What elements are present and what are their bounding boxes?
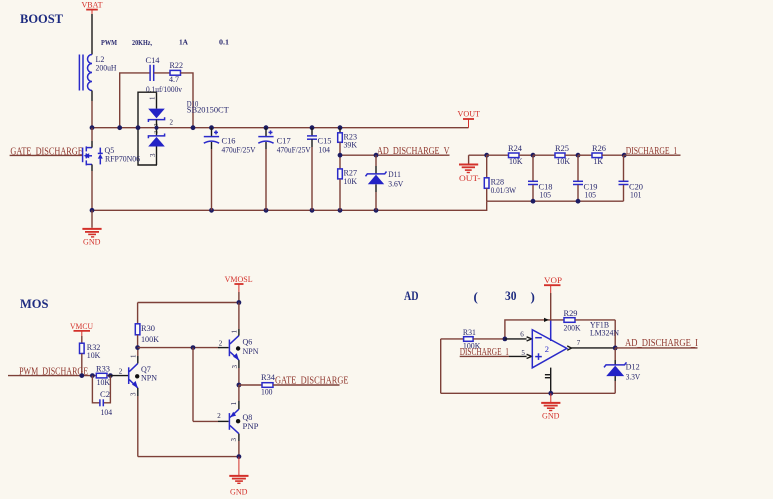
svg-text:AD_DISCHARGE_V: AD_DISCHARGE_V — [377, 146, 450, 157]
wire main rail — [92, 127, 469, 129]
svg-text:10K: 10K — [557, 157, 571, 166]
zener diode D12 — [604, 348, 640, 393]
svg-text:PNP: PNP — [243, 422, 260, 431]
diode D10 dual schottky — [138, 92, 229, 165]
ground OUT- — [459, 155, 487, 183]
svg-text:105: 105 — [585, 191, 597, 200]
svg-text:R22: R22 — [170, 61, 184, 70]
svg-text:0.01/3W: 0.01/3W — [491, 186, 517, 195]
wire AD bottom loop — [441, 339, 616, 396]
net PWM_DISCHARGE — [8, 366, 96, 378]
resistor R32 — [80, 343, 101, 376]
wire VMOSL rail — [138, 302, 239, 304]
wire VBAT to L2 — [91, 14, 93, 55]
svg-text:Q6: Q6 — [243, 338, 253, 347]
op-amp labels YF1B LM324N — [590, 321, 619, 338]
svg-text:C14: C14 — [146, 56, 160, 65]
svg-text:30: 30 — [505, 288, 517, 303]
svg-text:0.1: 0.1 — [219, 38, 229, 47]
wire Q8 collector bottom — [238, 434, 240, 457]
net AD_DISCHARGE_V — [338, 146, 450, 157]
svg-text:R24: R24 — [508, 144, 522, 153]
op-amp V+ pin — [550, 320, 552, 341]
svg-text:200K: 200K — [564, 324, 581, 333]
svg-text:RFP70N06: RFP70N06 — [105, 154, 140, 163]
svg-text:Q8: Q8 — [243, 413, 253, 422]
resistor R34 — [237, 373, 276, 397]
power VOUT — [458, 109, 481, 128]
svg-text:105: 105 — [540, 191, 552, 200]
resistor R27 — [338, 155, 358, 210]
ground GND mos — [229, 457, 248, 497]
svg-text:SB20150CT: SB20150CT — [187, 106, 229, 115]
op-amp U triangle — [532, 330, 567, 368]
svg-text:2: 2 — [217, 412, 221, 420]
wire Q5 drain — [91, 128, 93, 148]
svg-text:3: 3 — [231, 365, 239, 369]
wire feedback loop — [505, 318, 564, 339]
svg-text:R25: R25 — [555, 144, 569, 153]
inductor L2 — [79, 55, 116, 91]
svg-text:D11: D11 — [388, 170, 401, 179]
transistor Q7 — [129, 354, 158, 396]
svg-text:10K: 10K — [97, 378, 111, 387]
svg-text:NPN: NPN — [141, 373, 157, 382]
zener diode D11 — [366, 155, 404, 210]
transistor Q6 — [229, 330, 258, 369]
ground GND ad — [541, 393, 560, 420]
svg-text:2: 2 — [153, 131, 159, 134]
svg-text:20KHz,: 20KHz, — [132, 38, 152, 47]
svg-text:100: 100 — [261, 388, 273, 397]
svg-text:DISCHARGE_1: DISCHARGE_1 — [626, 146, 678, 157]
svg-text:5: 5 — [521, 349, 525, 357]
svg-text:R31: R31 — [463, 328, 476, 337]
annotation PWM 20KHz 1A 0.1 — [101, 38, 229, 48]
svg-text:C17: C17 — [277, 137, 291, 146]
wire MOS bottom rail — [138, 454, 242, 459]
svg-text:1: 1 — [230, 330, 238, 334]
op-amp V- pin and power bars — [545, 368, 551, 394]
svg-text:4.7: 4.7 — [169, 75, 179, 84]
svg-text:R30: R30 — [141, 324, 155, 333]
svg-text:6: 6 — [520, 330, 524, 338]
svg-text:100K: 100K — [141, 335, 159, 344]
svg-text:VMOSL: VMOSL — [225, 274, 253, 284]
resistor R33 — [96, 365, 113, 387]
mosfet Q5 — [83, 146, 140, 165]
wire Q7 emitter — [137, 388, 139, 457]
svg-text:R29: R29 — [564, 309, 578, 318]
svg-text:C2: C2 — [100, 390, 110, 399]
net DISCHARGE_1 top — [622, 146, 681, 158]
wire L2 to rail — [91, 91, 93, 128]
svg-text:10K: 10K — [344, 177, 358, 186]
net GATE_DISCHARGE mos — [273, 376, 349, 387]
svg-text:R34: R34 — [261, 373, 275, 382]
net GATE_DISCHARGE — [10, 146, 83, 157]
svg-text:200uH: 200uH — [96, 63, 117, 72]
svg-text:104: 104 — [101, 408, 113, 417]
svg-text:104: 104 — [319, 145, 331, 154]
wire Q5 source — [91, 164, 93, 210]
wire output pin 7 — [567, 339, 617, 350]
svg-text:7: 7 — [577, 339, 581, 347]
svg-text:470uF/25V: 470uF/25V — [277, 146, 311, 155]
power VOP — [544, 275, 562, 320]
svg-text:AD: AD — [404, 288, 419, 303]
svg-text:1: 1 — [149, 96, 157, 100]
svg-text:GATE_DISCHARGE: GATE_DISCHARGE — [275, 376, 349, 387]
svg-text:101: 101 — [630, 191, 642, 200]
node dots on GND rail — [90, 208, 379, 213]
svg-text:VBAT: VBAT — [82, 0, 104, 10]
svg-text:GND: GND — [542, 410, 560, 420]
resistor R24 — [484, 144, 533, 166]
resistor R31 — [441, 328, 508, 350]
svg-text:10K: 10K — [87, 351, 101, 360]
title AD ( 30 ) — [404, 288, 535, 304]
svg-text:1K: 1K — [594, 157, 604, 166]
svg-text:2: 2 — [219, 339, 223, 347]
svg-text:(: ( — [474, 289, 478, 304]
svg-text:BOOST: BOOST — [20, 11, 63, 26]
power VMCU — [70, 321, 93, 343]
svg-text:GND: GND — [83, 236, 101, 246]
transistor Q8 — [229, 401, 259, 441]
svg-text:2: 2 — [170, 119, 174, 127]
svg-text:3.3V: 3.3V — [626, 372, 641, 381]
svg-text:39K: 39K — [344, 140, 358, 149]
wire Q6 emitter to node — [238, 360, 240, 385]
net AD_DISCHARGE_I — [615, 338, 698, 349]
capacitor C16 — [204, 128, 256, 211]
svg-text:D12: D12 — [626, 363, 640, 372]
wire GND rail — [92, 201, 487, 210]
svg-text:1A: 1A — [179, 38, 189, 47]
svg-text:3.6V: 3.6V — [388, 179, 403, 188]
capacitor C2 loop — [92, 376, 112, 417]
svg-text:1: 1 — [230, 401, 238, 405]
svg-text:): ) — [531, 289, 535, 304]
svg-text:10K: 10K — [509, 157, 523, 166]
svg-text:VOUT: VOUT — [458, 109, 481, 119]
svg-text:2: 2 — [545, 344, 549, 354]
svg-text:1: 1 — [130, 354, 138, 358]
wire base node — [135, 345, 228, 350]
wire R22 right leg — [181, 73, 194, 128]
power VMOSL — [225, 274, 253, 305]
svg-text:3: 3 — [230, 438, 238, 442]
svg-text:3: 3 — [149, 153, 157, 157]
resistor R25 — [531, 144, 578, 166]
resistor R29 — [564, 309, 616, 348]
svg-text:MOS: MOS — [20, 296, 49, 311]
svg-text:C16: C16 — [222, 137, 236, 146]
resistor R22 — [169, 61, 183, 84]
resistor R23 — [338, 128, 358, 156]
wire Q8 emitter top — [238, 385, 240, 409]
svg-text:R33: R33 — [96, 365, 110, 374]
net DISCHARGE_1 ad — [460, 347, 532, 359]
svg-text:OUT-: OUT- — [459, 173, 481, 183]
svg-text:VOP: VOP — [544, 275, 562, 285]
wire C14 left leg — [120, 73, 150, 128]
svg-text:NPN: NPN — [243, 347, 259, 356]
svg-text:470uF/25V: 470uF/25V — [222, 146, 256, 155]
ground GND boost — [82, 210, 101, 246]
wire RC bottom rail — [487, 200, 624, 202]
capacitor C15 — [307, 128, 332, 211]
svg-text:AD_DISCHARGE_I: AD_DISCHARGE_I — [625, 338, 698, 349]
capacitor C14 — [146, 56, 183, 94]
svg-text:PWM: PWM — [101, 38, 117, 47]
wire to Q7 base — [110, 375, 128, 377]
wire left branch to Q8 base — [193, 348, 229, 422]
resistor R28 — [484, 155, 516, 201]
resistor R30 — [135, 303, 159, 348]
capacitor C17 — [258, 128, 311, 211]
svg-text:VMCU: VMCU — [70, 321, 93, 331]
wire Q7 collector — [137, 348, 139, 364]
wire pin 6 — [505, 330, 532, 341]
capacitor C20 — [619, 155, 644, 201]
svg-text:2: 2 — [119, 367, 123, 375]
resistor R26 — [576, 144, 625, 166]
svg-text:3: 3 — [130, 392, 138, 396]
svg-text:LM324N: LM324N — [590, 328, 619, 337]
svg-text:GND: GND — [230, 486, 248, 496]
power VBAT — [82, 0, 104, 14]
node dots on main rail — [90, 125, 343, 130]
capacitor C19 — [573, 155, 598, 203]
capacitor C18 — [528, 155, 553, 203]
wire Q6 collector — [238, 303, 240, 336]
wire C14 to R22 — [154, 72, 170, 74]
svg-text:R26: R26 — [592, 144, 606, 153]
